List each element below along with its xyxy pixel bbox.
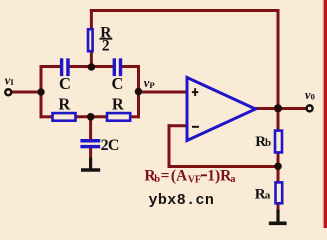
svg-text:2C: 2C xyxy=(101,137,119,154)
wire: bottom rail middle segment (between R and R) xyxy=(76,115,108,118)
wire: long top wire to output xyxy=(90,9,280,12)
wire: right drop from top wire to output node xyxy=(277,11,280,111)
red page border (right edge) xyxy=(323,0,324,228)
resistor R (left) xyxy=(53,113,76,121)
wire: bottom rail left segment xyxy=(40,115,54,118)
ground under Ra xyxy=(269,210,287,224)
op-amp - input symbol xyxy=(192,126,199,128)
ground under 2C xyxy=(81,158,100,171)
svg-text:R: R xyxy=(112,94,125,113)
node vP xyxy=(135,88,143,96)
svg-text:C: C xyxy=(111,74,123,93)
formula Rb=(AVF-1)Ra xyxy=(144,167,236,185)
resistor R/2 xyxy=(88,29,93,51)
svg-text:Rb: Rb xyxy=(255,134,271,150)
wire: Rb bottom to feedback node xyxy=(277,153,280,168)
label R/2 fraction bar xyxy=(100,38,113,40)
op-amp U1 xyxy=(187,78,256,141)
wire: op-amp output to vO terminal xyxy=(254,107,306,110)
wire: 2C lower lead to ground xyxy=(89,148,92,159)
svg-text:C: C xyxy=(59,74,71,93)
wire: top rail middle segment (between C and C) xyxy=(69,65,113,68)
capacitor 2C xyxy=(80,139,100,148)
wire: Ra bottom to ground xyxy=(277,204,280,211)
capacitor C (left) xyxy=(60,58,70,76)
wire: op-amp - input lead xyxy=(168,124,189,127)
wire: top rail left segment xyxy=(40,65,61,68)
capacitor C (right) xyxy=(113,58,123,76)
node: Rb/Ra feedback junction xyxy=(274,163,282,171)
svg-text:ybx8.cn: ybx8.cn xyxy=(149,192,215,209)
node: input junction xyxy=(37,88,44,95)
wire: top rail right segment xyxy=(122,65,140,68)
node: output junction xyxy=(274,104,282,112)
wire: feedback node to Ra top xyxy=(277,165,280,183)
node: bottom rail mid junction xyxy=(87,113,95,121)
terminal vI xyxy=(5,89,11,95)
svg-text:Ra: Ra xyxy=(255,186,271,202)
terminal vO xyxy=(307,105,313,111)
wire: right vertical of twin-T xyxy=(137,65,140,118)
resistor Ra xyxy=(276,182,283,203)
wire: input vI to left junction xyxy=(11,91,43,94)
wire: node vP to op-amp + input xyxy=(139,91,189,94)
resistor R (right) xyxy=(107,113,130,121)
wire: feedback vertical xyxy=(168,124,171,168)
wire: R/2 upper lead xyxy=(90,9,93,30)
wire: feedback horizontal to Rb/Ra node xyxy=(168,165,280,168)
op-amp + input symbol xyxy=(192,88,198,96)
resistor Rb xyxy=(275,131,282,153)
wire: bottom rail right segment xyxy=(131,115,141,118)
svg-text:R: R xyxy=(58,94,71,113)
wire: 2C upper lead from bottom rail junction xyxy=(89,116,92,140)
wire: R/2 lower lead to top rail junction xyxy=(90,52,93,69)
wire: left vertical of twin-T xyxy=(40,65,43,118)
wire: output node to Rb top xyxy=(277,107,280,131)
node: top rail mid junction xyxy=(88,63,96,71)
svg-text:2: 2 xyxy=(102,38,110,55)
